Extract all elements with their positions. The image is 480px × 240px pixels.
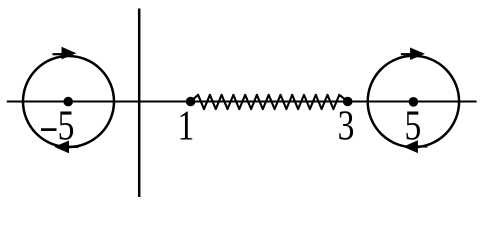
- right circle top arrowhead: [410, 48, 425, 61]
- point 1: [186, 97, 196, 107]
- svg-text:5: 5: [404, 103, 421, 149]
- left circle bottom arrowhead: [54, 141, 69, 154]
- label -5 digit: [58, 103, 75, 149]
- right circle bottom arrowhead: [403, 140, 418, 153]
- label -5 minus sign: [41, 128, 57, 131]
- point 3: [343, 97, 353, 107]
- left circle top arrow shaft: [53, 53, 64, 55]
- left circle top arrowhead: [62, 47, 77, 60]
- contour circle around 5: [368, 56, 459, 147]
- point -5: [63, 97, 73, 107]
- point 5: [409, 97, 419, 107]
- label 5: [404, 103, 421, 149]
- real axis: [7, 100, 477, 102]
- imaginary axis: [138, 9, 141, 198]
- svg-text:5: 5: [58, 103, 75, 149]
- label 1: [178, 103, 195, 149]
- branch cut zigzag from 1 to 3: [191, 95, 348, 109]
- left circle bottom arrow shaft: [68, 146, 79, 148]
- svg-text:3: 3: [338, 103, 355, 149]
- right circle top arrow shaft: [401, 53, 412, 55]
- svg-text:1: 1: [178, 103, 195, 149]
- label 3: [338, 103, 355, 149]
- contour circle around -5: [23, 56, 114, 147]
- right circle bottom arrow shaft: [416, 145, 427, 147]
